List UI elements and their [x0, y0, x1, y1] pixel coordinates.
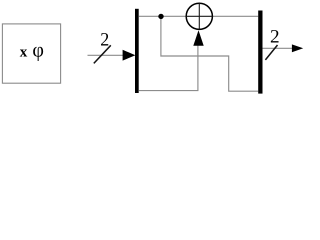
input arrowhead — [123, 50, 136, 61]
register bar right — [258, 11, 262, 94]
adder input arrowhead (up) — [193, 30, 203, 45]
wire feedback bottom (register to adder input) — [139, 41, 198, 91]
wire top (register to adder to register) — [139, 15, 259, 17]
wire output bus — [263, 47, 294, 49]
junction node — [158, 14, 163, 19]
svg-text:φ: φ — [32, 39, 44, 61]
adder U2 circle-plus — [186, 3, 212, 29]
svg-text:2: 2 — [100, 29, 109, 50]
wire input bus — [88, 54, 125, 56]
multiplier box U1 — [2, 24, 60, 83]
output bus-width slash — [265, 45, 277, 60]
register bar left — [135, 9, 139, 93]
svg-text:x: x — [20, 44, 28, 60]
wire feedback down-around (junction to right register) — [161, 16, 258, 91]
output arrowhead — [292, 44, 303, 52]
input bus-width slash — [94, 45, 111, 63]
svg-text:2: 2 — [270, 27, 280, 48]
